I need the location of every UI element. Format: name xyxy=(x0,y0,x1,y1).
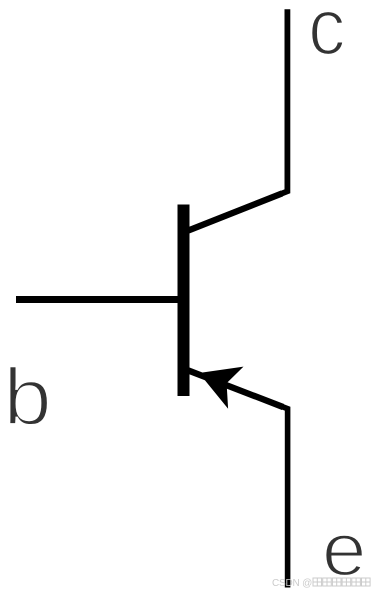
watermark text CSDN credit xyxy=(272,578,370,589)
emitter arrow (points into base: PNP) xyxy=(199,367,244,409)
svg-text:e: e xyxy=(322,509,367,592)
pin label b xyxy=(3,352,52,442)
svg-text:b: b xyxy=(3,352,52,442)
svg-text:c: c xyxy=(308,0,345,72)
pin label e xyxy=(322,509,367,592)
transistor Q1 (PNP) base bar xyxy=(178,205,190,397)
wire: base lead (node b) xyxy=(16,296,184,303)
wire: emitter diagonal thickening xyxy=(188,371,283,408)
wire: collector lead (node c) xyxy=(188,9,288,231)
wire: emitter lead (node e) xyxy=(188,370,287,587)
wire: collector diagonal thickening xyxy=(189,193,283,230)
svg-text:CSDN @: CSDN @ xyxy=(272,578,312,589)
pin label c xyxy=(308,0,345,72)
